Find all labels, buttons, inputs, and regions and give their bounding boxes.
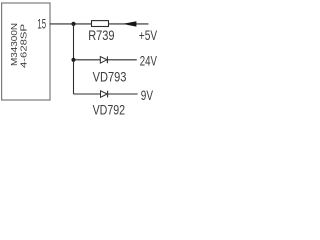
svg-text:VD793: VD793: [93, 70, 127, 85]
svg-text:9V: 9V: [141, 88, 153, 103]
svg-text:R739: R739: [88, 28, 114, 43]
svg-text:M34300N: M34300N: [10, 23, 19, 66]
svg-text:VD792: VD792: [93, 103, 126, 118]
svg-text:4-628SP: 4-628SP: [19, 24, 28, 68]
svg-text:15: 15: [37, 16, 46, 31]
svg-text:+5V: +5V: [139, 28, 157, 43]
svg-text:24V: 24V: [140, 54, 157, 69]
